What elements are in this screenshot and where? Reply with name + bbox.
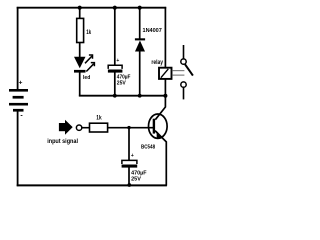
node junction D1 on middle rail — [138, 94, 142, 98]
wire left rail upper — [17, 7, 19, 90]
input terminal circle — [76, 125, 81, 130]
svg-text:input signal: input signal — [47, 138, 78, 145]
wire middle rail — [79, 95, 165, 97]
svg-text:-: - — [20, 113, 23, 120]
wire bottom rail — [17, 184, 167, 186]
wire C1 down to middle rail — [114, 73, 116, 97]
capacitor C1 — [108, 58, 123, 73]
svg-text:1k: 1k — [96, 115, 102, 121]
svg-text:1N4007: 1N4007 — [143, 28, 162, 34]
led D2 — [74, 55, 94, 73]
wire switch bottom terminal — [183, 88, 185, 100]
node junction C1 on middle rail — [113, 94, 117, 98]
battery B1 — [9, 79, 28, 119]
resistor R1 — [77, 18, 84, 42]
svg-text:470µF: 470µF — [131, 170, 147, 176]
svg-text:relay: relay — [151, 60, 163, 66]
svg-text:+: + — [116, 58, 119, 64]
svg-text:+: + — [19, 79, 23, 86]
wire C2 branch down — [128, 128, 130, 161]
wire relay linkage to contacts — [172, 71, 185, 75]
wire left rail lower — [17, 111, 19, 186]
capacitor C2 — [122, 153, 138, 168]
wire D1 down to middle rail — [139, 51, 141, 96]
wire collector — [155, 96, 165, 120]
switch contact top — [181, 59, 186, 64]
wire relay coil bottom — [164, 79, 166, 97]
wire switch top terminal — [183, 45, 185, 59]
switch blade — [185, 64, 193, 75]
wire R1 branch from top rail — [79, 8, 81, 19]
svg-text:led: led — [83, 75, 91, 81]
wire LED down to middle rail — [79, 72, 81, 96]
diode D1 — [135, 38, 145, 51]
svg-text:25V: 25V — [117, 80, 126, 86]
input signal arrow — [59, 120, 73, 135]
node junction top of R1 branch — [78, 6, 82, 10]
wire C1 branch from top rail — [114, 8, 116, 65]
node junction top of C1 branch — [113, 6, 117, 10]
switch contact bottom — [181, 82, 186, 87]
wire D1 branch from top rail — [139, 8, 141, 39]
svg-text:BC548: BC548 — [141, 144, 155, 150]
node junction base wire / C2 — [127, 126, 130, 129]
svg-text:+: + — [131, 153, 134, 159]
wire relay coil branch from top rail — [164, 7, 166, 68]
node junction collector / coil / middle rail — [163, 94, 167, 98]
wire C2 to bottom rail — [128, 168, 130, 187]
wire top rail — [17, 7, 167, 9]
node junction C2 on bottom rail — [127, 183, 131, 187]
svg-text:1k: 1k — [86, 30, 91, 36]
wire R2 to base — [108, 127, 154, 129]
transistor Q1 — [149, 114, 168, 186]
relay coil K1 — [159, 68, 172, 79]
svg-text:25V: 25V — [131, 177, 141, 183]
node junction top of D1 branch — [138, 6, 142, 10]
resistor R2 — [90, 123, 108, 132]
wire input circle to R2 — [82, 127, 90, 129]
wire R1 to LED — [79, 42, 81, 57]
